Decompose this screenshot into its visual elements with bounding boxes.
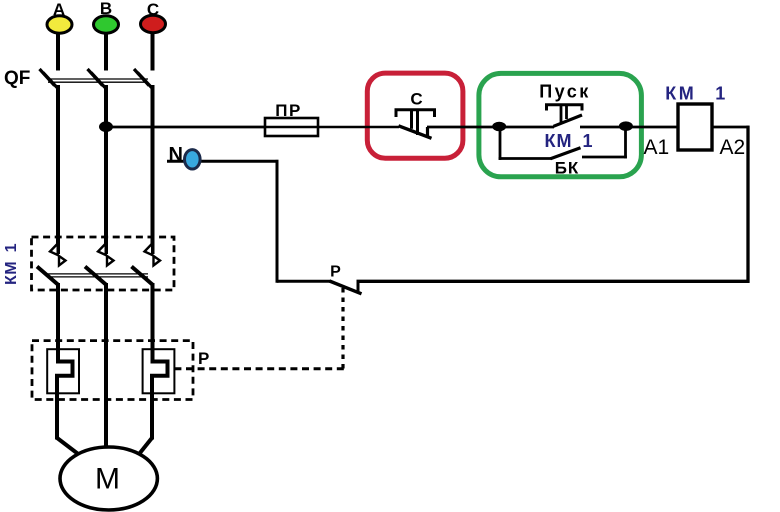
fuse PR body	[265, 118, 318, 136]
wire phase B KM1 to motor	[104, 283, 108, 452]
stop button C: right terminal	[426, 127, 429, 138]
wire green box left to start contact	[498, 126, 554, 129]
wire lamp A to QF	[56, 32, 60, 71]
KM1 main contact pole 1 upper chevron	[50, 244, 58, 256]
thermal relay contact right terminal	[357, 281, 360, 291]
KM1 main contact pole 3 upper chevron	[145, 244, 153, 256]
start button plunger stems	[560, 106, 563, 123]
wire phase C QF to KM1 contact	[151, 85, 155, 254]
lamp A (yellow)	[47, 16, 72, 33]
aux contact KM1 (BK) blade	[550, 148, 580, 159]
start button plunger bracket	[547, 105, 583, 111]
wire N branch to P contact	[277, 280, 331, 283]
wire stop button to green box	[427, 126, 500, 129]
wire N branch vertical	[276, 160, 279, 283]
wire BK branch right horizontal	[582, 156, 627, 159]
heater element 2 box	[143, 349, 175, 393]
wire coil A2 to right edge	[712, 126, 749, 129]
QF linkage bar	[48, 78, 148, 80]
thermal relay NC contact blade	[330, 281, 362, 294]
wire green box to coil A1	[625, 126, 678, 129]
node right junction in green box	[619, 121, 633, 131]
wire lamp C to QF	[151, 32, 155, 71]
KM1 main contact pole 3 blade	[132, 267, 153, 285]
dashed mechanical link vertical	[341, 288, 344, 369]
svg-text:ПР: ПР	[275, 101, 302, 120]
svg-text:М: М	[95, 463, 120, 496]
heater element 2 conductor	[152, 359, 168, 440]
KM1 main contact pole 1 blade	[37, 267, 58, 285]
wire right edge down	[746, 126, 749, 283]
wire phase A KM1 to heater	[56, 283, 60, 362]
thermal relay dashed outline	[32, 341, 193, 400]
svg-text:QF: QF	[4, 68, 30, 89]
dashed mechanical link horizontal	[174, 367, 344, 370]
svg-text:Р: Р	[330, 264, 341, 281]
svg-text:А2: А2	[720, 136, 746, 159]
wire BK branch left horizontal	[499, 157, 551, 160]
svg-text:БК: БК	[555, 159, 580, 178]
wire start contact to green box right	[580, 126, 626, 129]
wire bottom return	[357, 280, 750, 283]
contactor KM1 dashed outline	[32, 237, 175, 290]
KM1 main contact pole 1 lower chevron	[59, 256, 66, 266]
wire phase C KM1 to heater	[151, 283, 155, 362]
wire phase B QF to KM1 contact	[104, 85, 108, 254]
contactor coil KM1	[678, 104, 712, 150]
lamp C (red)	[141, 15, 166, 32]
QF pole 2 blade	[88, 69, 103, 86]
KM1 linkage bar	[48, 273, 149, 275]
stop button C: plunger stems	[410, 111, 413, 129]
svg-text:С: С	[410, 90, 422, 109]
heater element 1 conductor	[57, 359, 73, 440]
QF pole 3 blade	[134, 69, 149, 86]
control wire from phase B to fuse	[106, 126, 266, 129]
KM1 main contact pole 2 lower chevron	[107, 256, 114, 266]
svg-text:КМ 1: КМ 1	[545, 131, 594, 151]
wire BK branch right rise	[624, 127, 627, 158]
QF pole 1 blade	[40, 69, 55, 86]
wire through fuse	[266, 126, 399, 129]
neutral terminal (blue)	[185, 150, 201, 169]
node left junction in green box	[492, 122, 506, 132]
svg-text:КМ 1: КМ 1	[3, 243, 20, 285]
wire phase A QF to KM1 contact	[56, 85, 60, 254]
KM1 main contact pole 2 upper chevron	[98, 244, 106, 256]
svg-text:А1: А1	[644, 136, 670, 159]
wire heater 2 to motor (slant)	[140, 438, 153, 454]
svg-text:Пуск: Пуск	[539, 82, 591, 102]
stop button C: plunger bracket	[396, 110, 435, 117]
KM1 main contact pole 3 lower chevron	[154, 256, 161, 266]
wire heater 1 to motor (slant)	[57, 438, 78, 454]
svg-text:N: N	[169, 144, 183, 166]
start button movable blade	[554, 115, 583, 126]
wire BK branch left drop	[499, 127, 502, 160]
KM1 main contact pole 2 blade	[85, 267, 106, 285]
stop button C: movable blade	[399, 126, 432, 139]
start-button enclosure (green rounded box)	[479, 73, 642, 176]
svg-text:Р: Р	[198, 349, 209, 368]
motor M	[60, 447, 157, 510]
stop-button enclosure (red rounded box)	[367, 73, 463, 158]
wire lamp B to QF	[104, 32, 108, 71]
lamp B (green)	[94, 16, 119, 33]
svg-text:КМ 1: КМ 1	[665, 84, 728, 104]
wire N terminal to branch	[167, 160, 279, 163]
heater element 1 box	[47, 349, 79, 393]
node junction on phase B	[99, 121, 113, 132]
